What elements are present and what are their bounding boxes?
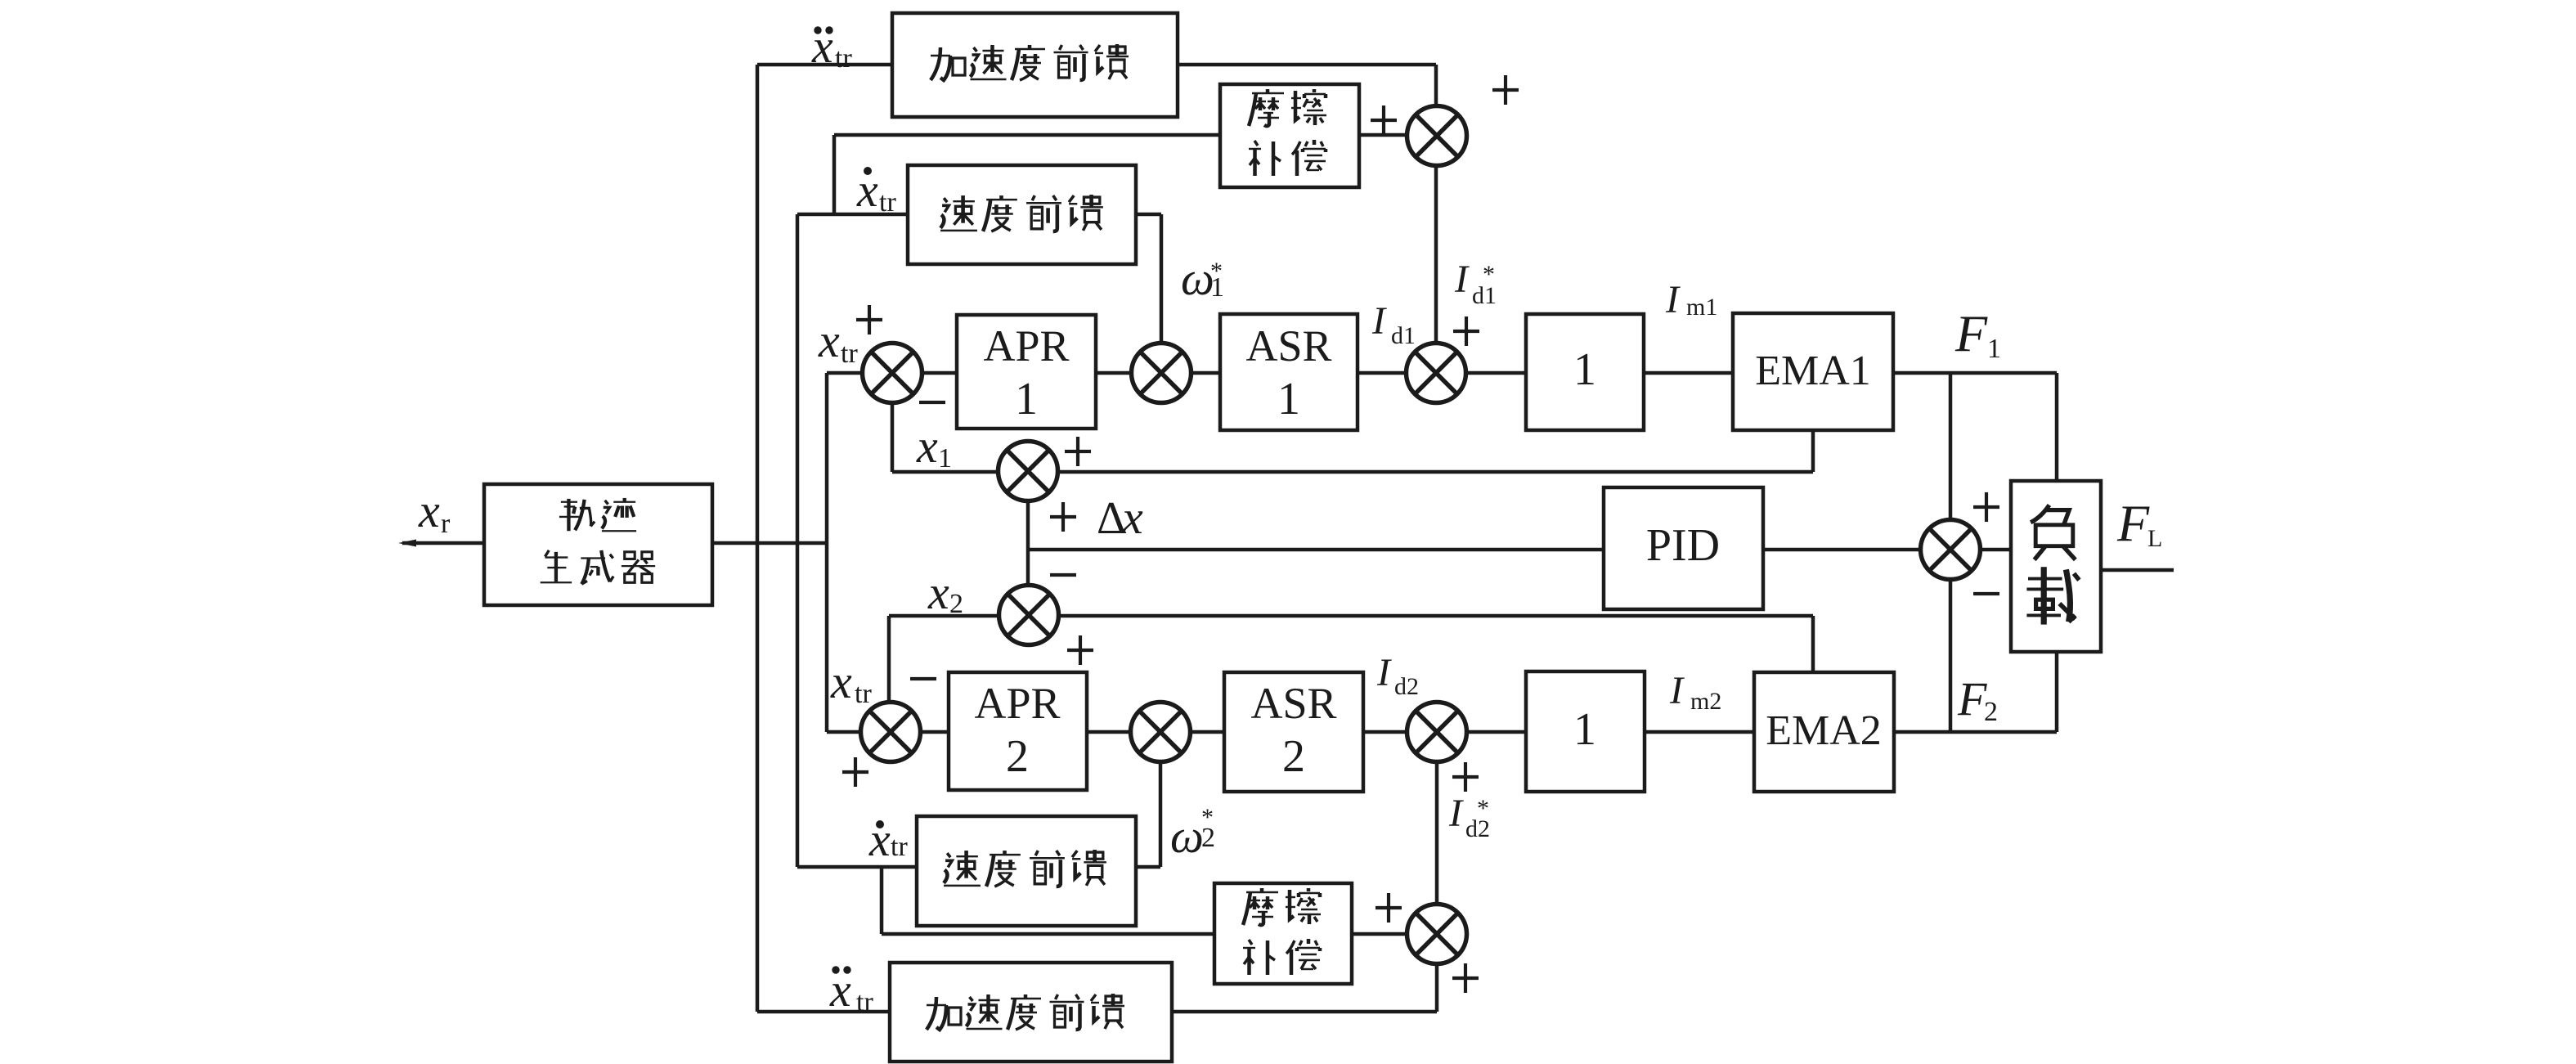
svg-text:ASR: ASR [1250, 679, 1336, 728]
svg-text:x: x [1121, 491, 1143, 544]
svg-text:x: x [830, 655, 852, 708]
svg-text:2: 2 [1984, 697, 1998, 727]
svg-text:r: r [441, 509, 451, 539]
svg-text:I: I [1371, 299, 1387, 343]
svg-text:tr: tr [841, 339, 858, 369]
svg-text:2: 2 [949, 589, 963, 619]
svg-text:tr: tr [891, 832, 908, 862]
svg-text:ω: ω [1181, 252, 1214, 305]
svg-text:d2: d2 [1394, 673, 1419, 700]
svg-text:I: I [1448, 792, 1464, 835]
svg-text:I: I [1665, 278, 1681, 321]
svg-text:APR: APR [974, 679, 1060, 728]
svg-text:F: F [1954, 304, 1988, 362]
svg-text:1: 1 [1573, 344, 1596, 395]
svg-text:1: 1 [1277, 374, 1300, 424]
svg-text:*: * [1477, 795, 1489, 822]
svg-text:F: F [2116, 494, 2150, 552]
svg-text:EMA1: EMA1 [1755, 348, 1871, 394]
svg-text:*: * [1483, 261, 1495, 288]
svg-text:L: L [2147, 525, 2162, 552]
svg-text:tr: tr [879, 187, 896, 218]
svg-text:EMA2: EMA2 [1766, 707, 1882, 754]
svg-text:tr: tr [855, 679, 872, 709]
svg-text:m1: m1 [1686, 294, 1717, 321]
svg-text:PID: PID [1646, 520, 1720, 571]
svg-text:m2: m2 [1690, 688, 1721, 715]
svg-text:1: 1 [938, 443, 952, 474]
svg-text:1: 1 [1210, 272, 1224, 303]
svg-text:1: 1 [1573, 704, 1596, 755]
svg-text:d1: d1 [1391, 322, 1416, 349]
svg-text:F: F [1957, 672, 1987, 725]
svg-text:1: 1 [1987, 334, 2001, 364]
svg-text:I: I [1454, 258, 1470, 301]
svg-text:2: 2 [1201, 823, 1215, 853]
svg-text:I: I [1376, 651, 1392, 694]
svg-text:x: x [927, 566, 949, 619]
svg-text:ω: ω [1170, 810, 1204, 863]
svg-text:APR: APR [983, 321, 1069, 370]
svg-text:2: 2 [1282, 731, 1305, 782]
svg-text:x: x [818, 314, 840, 367]
svg-text:x: x [916, 420, 938, 473]
svg-text:1: 1 [1015, 374, 1038, 424]
svg-text:2: 2 [1006, 731, 1029, 782]
svg-text:I: I [1669, 669, 1685, 712]
svg-text:tr: tr [835, 43, 852, 74]
svg-text:x: x [418, 484, 440, 537]
svg-text:tr: tr [856, 987, 873, 1017]
svg-text:ASR: ASR [1245, 321, 1331, 370]
